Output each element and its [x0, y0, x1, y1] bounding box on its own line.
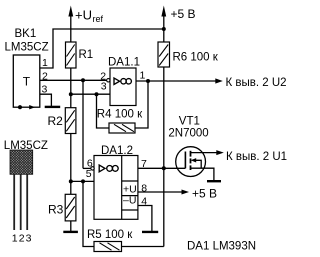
svg-text:3: 3 [42, 83, 48, 95]
svg-text:2: 2 [42, 70, 48, 82]
svg-text:8: 8 [141, 182, 147, 194]
svg-text:R1: R1 [79, 49, 94, 61]
svg-text:5: 5 [86, 168, 92, 180]
svg-text:LM35CZ: LM35CZ [4, 140, 48, 152]
svg-text:2: 2 [19, 233, 25, 245]
svg-text:DA1.1: DA1.1 [108, 57, 140, 69]
svg-text:R6 100 к: R6 100 к [173, 51, 219, 63]
svg-text:R5 100 к: R5 100 к [87, 229, 133, 241]
svg-text:LM35CZ: LM35CZ [5, 41, 49, 53]
svg-text:+5 В: +5 В [171, 7, 196, 21]
svg-text:R3: R3 [48, 203, 64, 217]
svg-text:+U: +U [75, 8, 92, 23]
svg-text:DA1.2: DA1.2 [101, 145, 133, 157]
svg-text:ref: ref [93, 14, 104, 24]
svg-text:DA1 LM393N: DA1 LM393N [187, 241, 256, 253]
svg-text:3: 3 [26, 233, 32, 245]
svg-text:К выв. 2 U1: К выв. 2 U1 [226, 151, 287, 163]
svg-text:7: 7 [141, 158, 147, 170]
svg-text:1: 1 [140, 70, 146, 82]
svg-text:T: T [23, 75, 31, 89]
svg-text:BK1: BK1 [15, 28, 37, 40]
svg-text:К выв. 2 U2: К выв. 2 U2 [226, 77, 287, 89]
svg-text:1: 1 [12, 233, 18, 245]
svg-text:+5 В: +5 В [192, 187, 217, 201]
svg-text:2N7000: 2N7000 [168, 128, 208, 140]
svg-text:1: 1 [42, 57, 48, 69]
svg-text:–U: –U [123, 195, 136, 207]
svg-text:R4 100 к: R4 100 к [97, 109, 143, 121]
svg-text:R2: R2 [48, 114, 64, 128]
svg-text:VT1: VT1 [179, 116, 200, 128]
svg-text:3: 3 [101, 80, 107, 92]
svg-text:4: 4 [141, 196, 147, 208]
